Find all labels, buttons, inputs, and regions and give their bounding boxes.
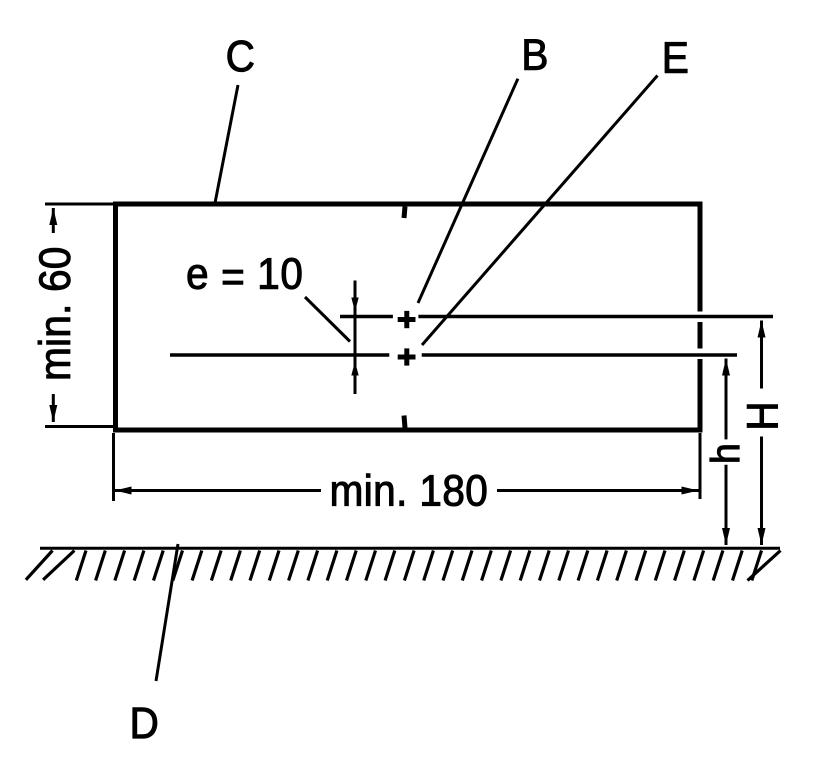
upper beam line (re-draw over gaps) <box>340 315 773 319</box>
lower beam line <box>170 353 737 357</box>
label h (rotated) <box>710 446 739 462</box>
H dimension line upper segment <box>760 321 763 389</box>
e dimension arrow up <box>351 362 358 376</box>
min.180 dimension line right segment <box>497 489 699 492</box>
h arrow down <box>722 528 730 545</box>
h dimension line lower segment <box>725 465 728 545</box>
ground line <box>40 547 780 550</box>
headlamp body rectangle <box>116 204 701 430</box>
label E <box>665 42 687 72</box>
min.60 dimension line lower segment <box>52 394 55 422</box>
min.60 top extension line <box>45 203 118 206</box>
h dimension line upper segment <box>725 359 728 440</box>
ground hatching <box>26 551 781 581</box>
white gap in lower beam line at cross E <box>389 352 421 359</box>
h arrow up <box>722 359 730 376</box>
label D <box>133 708 157 738</box>
label C <box>228 41 254 72</box>
min.60 arrow up <box>49 208 57 225</box>
leader line D <box>156 544 178 681</box>
min.180 arrow left <box>115 487 132 495</box>
e dimension line <box>354 281 357 395</box>
label e = 10 <box>188 258 302 289</box>
top centre tick <box>404 207 405 219</box>
label min. 60 (rotated) <box>38 248 70 378</box>
H arrow up <box>758 321 766 338</box>
cross B (upper) <box>398 311 416 328</box>
min.60 arrow down <box>49 405 57 422</box>
min.60 dimension line upper segment <box>52 208 55 233</box>
min.180 left extension line <box>112 433 115 501</box>
white gap in right edge at lower beam line <box>696 349 705 360</box>
e dimension arrow down <box>351 298 358 312</box>
label H (rotated) <box>747 405 777 428</box>
leader line C <box>215 85 238 203</box>
leader line e <box>305 297 350 342</box>
label B <box>525 39 547 69</box>
leader line E <box>422 76 658 346</box>
H dimension line lower segment <box>760 437 763 546</box>
white gap in right edge at upper beam line <box>696 312 705 323</box>
label min. 180 <box>332 474 486 506</box>
min.180 arrow right <box>682 487 699 495</box>
white gap in upper beam line at cross B <box>393 313 419 320</box>
min.60 bottom extension line <box>45 425 118 428</box>
min.180 right extension line <box>699 433 702 499</box>
min.180 dimension line left segment <box>115 489 322 492</box>
bottom centre tick <box>404 416 405 429</box>
cross E (lower) <box>398 348 416 365</box>
H arrow down <box>758 528 766 545</box>
leader line B <box>418 79 518 303</box>
